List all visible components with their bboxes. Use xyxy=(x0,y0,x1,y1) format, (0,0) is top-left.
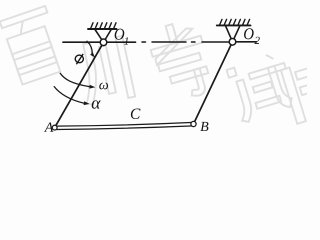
ground line O2 xyxy=(217,24,251,26)
watermark char 1 bai xyxy=(0,6,67,85)
pin circle A xyxy=(52,125,57,130)
label phi xyxy=(75,54,83,64)
alpha rotation arrow arc xyxy=(54,87,84,104)
link O2-B xyxy=(194,42,233,124)
support legs O1 xyxy=(95,30,111,43)
label omega xyxy=(99,83,108,90)
watermark partial char right edge xyxy=(281,58,320,124)
centerline dash-dot segment xyxy=(142,41,232,43)
omega rotation arrow arc xyxy=(60,73,89,86)
label O1 letter O xyxy=(115,29,125,40)
pin circle O1 xyxy=(100,39,107,46)
omega arrowhead xyxy=(89,85,95,89)
hatching O2 xyxy=(219,19,249,25)
watermark char 3 kao xyxy=(145,17,216,104)
coupler bar AB (outlined) xyxy=(57,122,194,129)
watermark char 4 shi xyxy=(226,50,298,123)
phi arrowhead xyxy=(90,52,95,57)
angle phi arc xyxy=(87,41,92,54)
hatching O1 xyxy=(90,23,116,29)
diagram ink xyxy=(52,19,256,130)
crank link O1-A xyxy=(55,42,104,127)
watermark char 2 chuan xyxy=(74,36,135,107)
label O2 subscript 2 xyxy=(255,37,260,44)
alpha arrowhead xyxy=(84,101,90,105)
centerline right solid segment xyxy=(232,41,257,43)
label C xyxy=(131,109,141,119)
watermark xyxy=(0,6,320,124)
support legs O2 xyxy=(226,26,240,42)
pin circle B xyxy=(191,121,196,126)
label B xyxy=(200,122,208,131)
label A xyxy=(44,122,53,131)
ground line O1 xyxy=(88,28,117,30)
label O2 letter O xyxy=(244,28,254,39)
label O1 subscript 1 xyxy=(124,37,128,44)
centerline left solid segment xyxy=(63,41,136,43)
label alpha xyxy=(92,100,101,108)
pin circle O2 xyxy=(229,39,236,46)
